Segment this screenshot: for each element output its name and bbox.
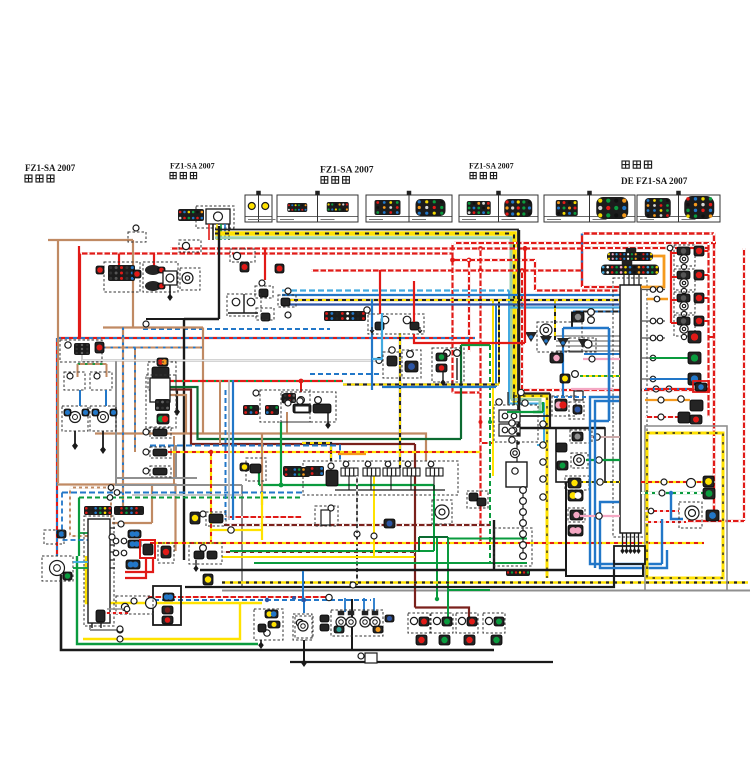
svg-text:FZ1-SA 2007: FZ1-SA 2007 [320,165,374,176]
svg-text:FZ1-SA 2007: FZ1-SA 2007 [25,163,76,173]
svg-text:FZ1-SA 2007: FZ1-SA 2007 [469,162,514,171]
svg-text:FZ1-SA 2007: FZ1-SA 2007 [170,162,215,171]
svg-text:DE FZ1-SA 2007: DE FZ1-SA 2007 [621,176,688,186]
